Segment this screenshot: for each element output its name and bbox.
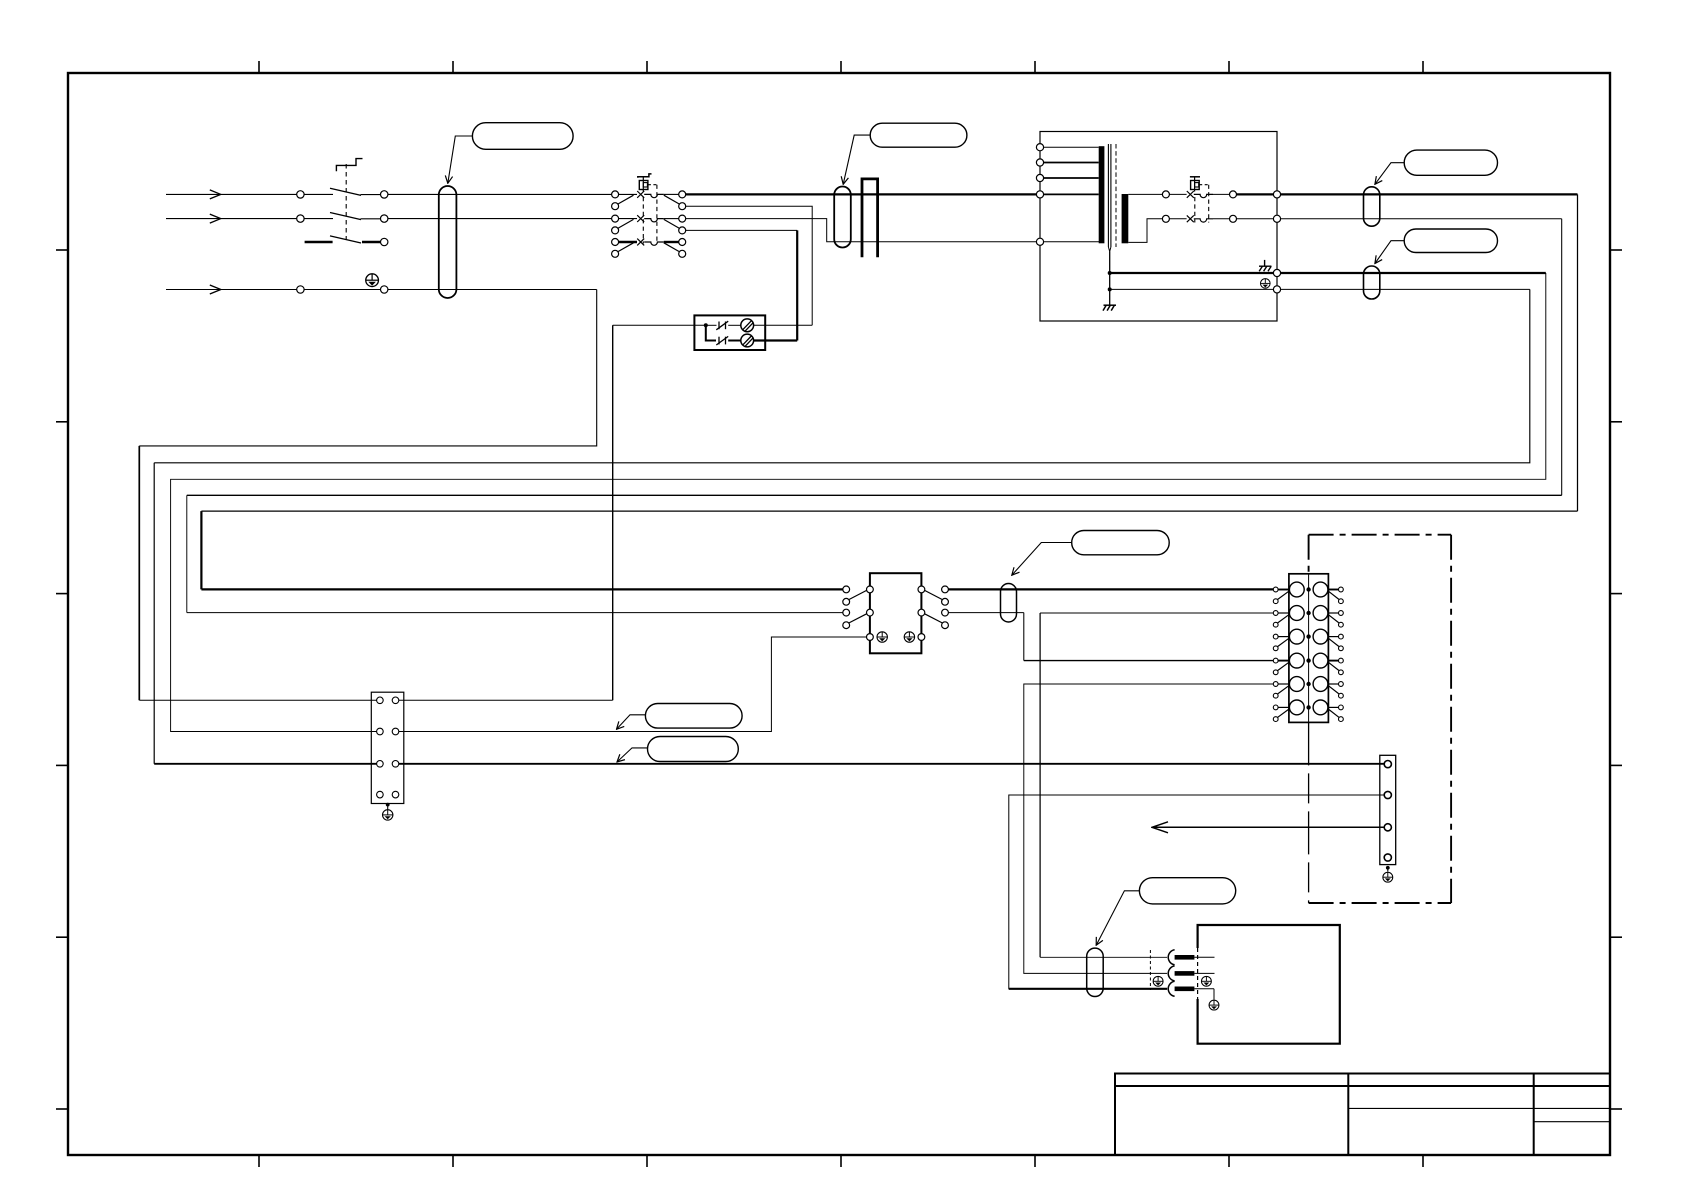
leader line callout 4 [1375, 241, 1404, 264]
fan connector row 2 [1168, 966, 1174, 981]
circuit breaker release dashed link [648, 184, 657, 186]
incoming PE wire with arrow [166, 289, 221, 291]
transformer screen junction dot 1 [1108, 271, 1112, 275]
leader line callout 8 [1096, 891, 1139, 945]
wire breaker pole1 aux to lamp [686, 206, 813, 325]
secondary breaker pole 2 [1162, 215, 1236, 222]
terminal block X1 [371, 692, 404, 803]
secondary breaker linkage dashed [1194, 197, 1196, 223]
secondary breaker release box [1191, 181, 1200, 190]
indicator lamp 2 [741, 334, 754, 347]
fan connector row 3 [1168, 981, 1174, 996]
enclosure boundary dash-dot right [1450, 535, 1452, 903]
disconnect switch handle [336, 159, 362, 172]
relay strip row 5 [1273, 677, 1343, 699]
terminal circle L1 left [297, 191, 304, 198]
terminal block X1 circles row 3 [377, 761, 384, 768]
wire run 4 routing [154, 289, 1530, 462]
fan row3 wire thick portion [1009, 988, 1167, 990]
relay strip row 2 [1273, 606, 1343, 628]
riser to strip row4 [1023, 613, 1025, 661]
filter left crimp pair 2 [843, 609, 850, 616]
contact symbol top row [716, 321, 728, 330]
terminal block X1 circles row 4 [377, 791, 384, 798]
callout balloon 3 [1404, 150, 1497, 175]
wire breaker pole2 out with jog [686, 219, 1037, 242]
remote connector strip [1380, 755, 1396, 864]
ferrite filter symbol [862, 179, 878, 257]
filter right terminal 2 [918, 609, 925, 616]
secondary breaker handle T-bar [1190, 176, 1200, 178]
terminal circle PE left [297, 286, 304, 293]
wire terminal block row1 to lamp vertical [399, 699, 613, 701]
circuit breaker Q1 pole 3 spare [612, 239, 686, 258]
disconnect switch linkage dashed [345, 164, 347, 240]
disconnect switch pole 1 blade [330, 188, 361, 195]
wire L1 to switch [304, 193, 333, 195]
indicator lamp box [694, 315, 765, 350]
junction dot in lamp box [704, 323, 708, 327]
circuit breaker linkage dashed lines [642, 197, 644, 244]
disconnect switch pole 3 spare stub left [305, 241, 333, 244]
arrow wire from remote connector [1152, 826, 1384, 828]
wire block row2 to filter PE [399, 637, 867, 732]
fan unit box [1198, 925, 1340, 1044]
transformer secondary winding bar [1122, 194, 1129, 243]
terminal block X1 circles row 1 [377, 697, 384, 704]
cable marker capsule 3 [1364, 187, 1380, 226]
transformer screen junction dot 2 [1108, 287, 1112, 291]
wire run 2 from transformer [1281, 218, 1562, 220]
circuit breaker release box [639, 181, 648, 190]
fan connector row 1 [1168, 950, 1174, 965]
transformer input terminals left edge [1036, 144, 1043, 151]
frame zone ticks left [56, 250, 68, 1109]
cable marker capsule 7 [1001, 584, 1017, 623]
filter output wire 2 [948, 612, 1023, 614]
PE symbol at input [366, 274, 379, 287]
transformer core lines [1107, 144, 1109, 247]
callout balloon 1 [472, 123, 573, 150]
relay strip center line [1308, 574, 1310, 722]
fan cable boundary dashed [1149, 950, 1151, 990]
transformer primary winding bar [1099, 146, 1105, 243]
transformer output terminals right edge [1273, 191, 1280, 198]
secondary breaker pole 1 [1162, 191, 1236, 198]
transformer neutral wire thick [1110, 272, 1274, 274]
wire into lamp box top row [613, 324, 705, 326]
wire PE to the right [388, 289, 597, 291]
chassis ground symbol on neutral [1259, 260, 1271, 271]
leader line callout 2 [843, 135, 870, 184]
relay strip row 4 [1273, 653, 1343, 675]
relay strip row 3 [1273, 629, 1343, 651]
wire PE across [304, 289, 380, 291]
circuit breaker handle T-bar [638, 174, 652, 178]
lamp box internal branch [706, 327, 716, 341]
callout balloon 2 [870, 123, 967, 147]
wire breaker pole1 out thick [686, 193, 1037, 195]
transformer internal ground symbol [1103, 305, 1116, 310]
PE symbol left of fan box [1153, 976, 1163, 986]
title block outline [1115, 1074, 1610, 1156]
relay strip row 1 [1273, 582, 1343, 604]
cable marker capsule 1 [439, 186, 457, 298]
wire run 3 routing [171, 273, 1546, 732]
transformer PE wire [1110, 288, 1274, 290]
enclosure boundary dash-dot top [1309, 534, 1452, 536]
circuit breaker Q1 pole 2 [612, 215, 686, 234]
secondary output wire pole1 thick [1237, 193, 1274, 195]
cable marker capsule 4 [1364, 266, 1380, 299]
terminal block X1 circles row 2 [377, 728, 384, 735]
PE symbol inside fan box [1201, 976, 1211, 986]
wire run PE from input switch [139, 290, 596, 446]
transformer primary tap wires [1044, 146, 1099, 148]
relay strip row 6 [1273, 700, 1343, 721]
PE symbols inside filter [877, 632, 887, 642]
wire run 1 thick from transformer [1281, 193, 1578, 195]
filter left terminal 2 [867, 609, 874, 616]
transformer screen lead [1108, 247, 1111, 252]
filter left crimp pair 1 [843, 586, 850, 593]
leader line callout 5 [617, 715, 646, 730]
circuit breaker Q1 pole 1 [612, 191, 686, 210]
lamp circuit vertical to terminal block [612, 325, 614, 700]
indicator lamp 1 [741, 319, 754, 332]
callout balloon 5 [645, 704, 742, 729]
terminal circle PE right [381, 286, 388, 293]
terminal circle L1 right [381, 191, 388, 198]
disconnect switch pole 3 spare stub right [362, 241, 381, 244]
incoming supply wire L2 with arrow [166, 218, 221, 220]
transformer secondary bottom wire [1128, 219, 1162, 243]
filter right crimp pair 2 [942, 609, 949, 616]
transformer enclosure box [1040, 132, 1277, 322]
filter left terminal 1 [867, 586, 874, 593]
filter left terminal PE [867, 634, 874, 641]
remote connector wire to fan row3 [1009, 795, 1384, 989]
filter right crimp pair 1 [942, 586, 949, 593]
transformer shield dashed line [1115, 144, 1117, 247]
PE symbol below remote connector [1383, 872, 1393, 882]
wire to lamp 2 [728, 340, 741, 342]
callout balloon 7 [1072, 531, 1170, 555]
terminal circle pole3 right [381, 238, 388, 245]
lamp top row wire [708, 324, 717, 326]
callout balloon 6 [648, 737, 739, 762]
contact symbol bottom row [716, 336, 728, 345]
terminal circle L2 right [381, 215, 388, 222]
terminal block PE dot [386, 803, 390, 807]
wire L2 to switch [304, 218, 333, 220]
lamp 1 wire out [754, 324, 813, 326]
wire breaker pole2 aux to lamp [686, 229, 798, 231]
wire run 3 neutral horizontal thick [1281, 272, 1546, 274]
leader line callout 3 [1375, 163, 1404, 185]
filter right terminal 1 [918, 586, 925, 593]
frame zone ticks right [1610, 250, 1622, 1109]
PE symbol at transformer output [1261, 279, 1271, 289]
strip row5 wire to fan row2 [1024, 684, 1274, 973]
lamp 2 wire out thick [754, 339, 798, 341]
filter output wire 1 thick [948, 588, 1273, 590]
disconnect switch pole 2 blade [330, 213, 361, 220]
PE run left vertical [138, 446, 140, 700]
relay terminal strip body [1289, 574, 1329, 723]
wire L1 to breaker [388, 193, 612, 195]
wire L2 to breaker [388, 218, 612, 220]
cable marker capsule 2 [834, 187, 851, 248]
terminal circle L2 left [297, 215, 304, 222]
fan PE drop [1213, 989, 1215, 1000]
callout balloon 4 [1404, 229, 1497, 253]
frame zone ticks bottom [259, 1155, 1423, 1167]
frame zone ticks top [259, 61, 1423, 73]
disconnect switch pole 3 blade [330, 236, 361, 243]
secondary output wire pole2 [1237, 218, 1274, 220]
callout balloon 8 [1139, 878, 1235, 904]
secondary breaker release dashed link [1199, 184, 1209, 186]
PE symbol below terminal block [383, 810, 393, 820]
enclosure boundary dash-dot left upper [1308, 535, 1310, 574]
incoming supply wire L1 with arrow [166, 193, 221, 195]
leader line callout 6 [617, 748, 648, 762]
title block inner dividers [1348, 1108, 1610, 1121]
leader line callout 7 [1012, 543, 1072, 576]
EMC filter box [870, 573, 922, 653]
filter right terminal PE [918, 634, 925, 641]
leader line callout 1 [448, 136, 473, 183]
transformer secondary top wire [1128, 193, 1162, 195]
wire run 4 from transformer [1281, 288, 1530, 290]
remote connector PE dot [1386, 866, 1390, 870]
lamp feed vertical thick [796, 230, 798, 340]
PE run to terminal block row1 [139, 699, 376, 701]
enclosure boundary dash-dot left lower [1308, 722, 1310, 903]
strip row2 wire to fan row1 [1040, 612, 1273, 614]
enclosure boundary dash-dot bottom [1309, 902, 1452, 904]
cable marker capsule 8 [1087, 948, 1104, 996]
wire to lamp 1 [728, 324, 741, 326]
wire block row3 to remote connector thick [399, 763, 1384, 765]
